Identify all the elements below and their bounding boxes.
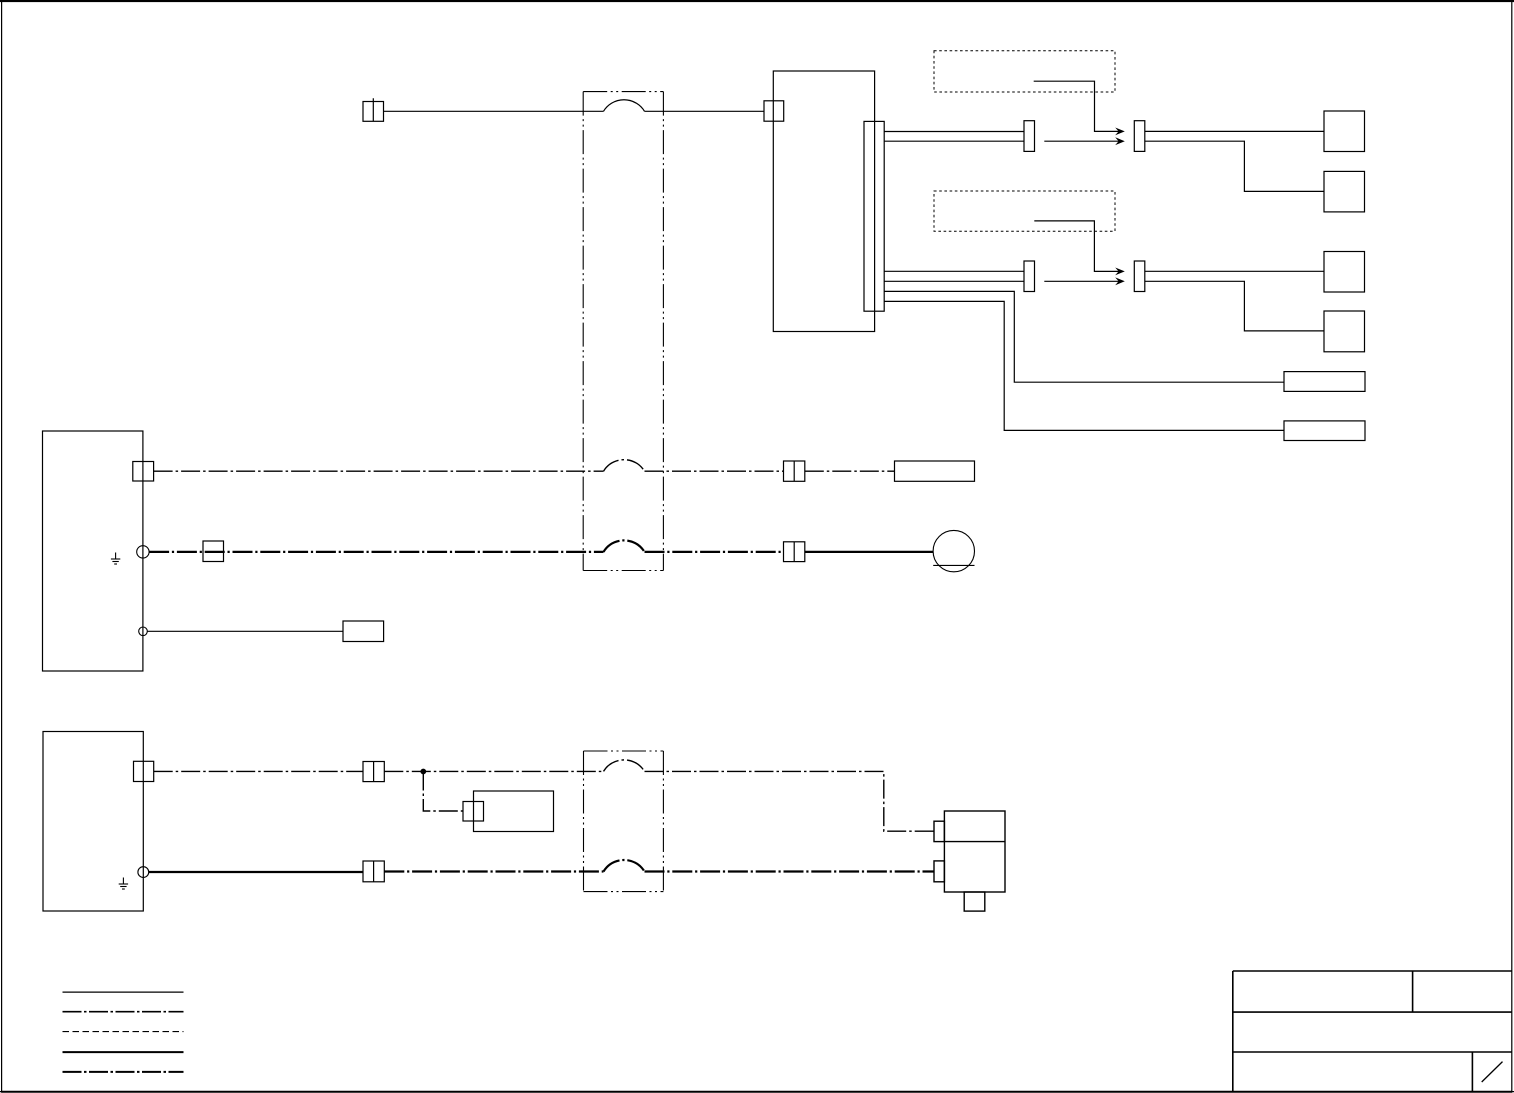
- wire: [645, 551, 784, 553]
- grommet arc: [604, 100, 645, 112]
- wire: [884, 140, 1024, 142]
- device square: [1324, 252, 1365, 293]
- wire: [1145, 281, 1324, 331]
- control unit box 1: [43, 431, 143, 671]
- wire: [884, 301, 1284, 430]
- ground: [119, 878, 128, 890]
- grommet arc: [604, 540, 645, 552]
- wire: [645, 870, 935, 872]
- wire: [149, 871, 363, 873]
- multi-pin connector strip: [864, 121, 884, 311]
- wire: [884, 270, 1024, 272]
- wire: [384, 110, 604, 112]
- connector (ignition switch lead): [363, 98, 384, 121]
- wire: [1044, 140, 1121, 142]
- harness boundary 1: [583, 92, 663, 571]
- pump motor assembly: [934, 811, 1005, 911]
- harness boundary 2: [584, 751, 664, 892]
- arrow: [1115, 137, 1125, 145]
- connector (in-line): [1024, 121, 1035, 152]
- wire: [805, 470, 895, 472]
- connector (on box edge): [134, 761, 154, 781]
- splice junction: [420, 769, 426, 775]
- wire: [884, 280, 1024, 282]
- title block: [1233, 971, 1512, 1092]
- terminal rectangle: [343, 621, 384, 642]
- connector (in-line pair): [363, 762, 384, 782]
- grommet arc: [604, 860, 645, 872]
- control unit box 2: [43, 732, 143, 912]
- arrow: [1115, 128, 1125, 136]
- arrow: [1115, 277, 1125, 285]
- connector (in-line pair): [784, 461, 805, 481]
- connector (on box edge): [133, 462, 154, 482]
- wire: [1145, 130, 1324, 132]
- wire: [154, 470, 604, 472]
- device square: [1324, 111, 1365, 152]
- wire: [645, 771, 935, 831]
- wire: [423, 772, 463, 812]
- ground: [111, 553, 120, 565]
- legend line (thick solid): [63, 1051, 184, 1053]
- wire: [884, 291, 1284, 382]
- title block diagonal: [1482, 1062, 1503, 1082]
- page border top bar: [0, 0, 1514, 2]
- wire: [1145, 270, 1324, 272]
- wire: [384, 870, 603, 872]
- connector (in-line): [1134, 261, 1145, 292]
- wire: [1034, 81, 1121, 131]
- connector (in-line pair): [784, 542, 805, 562]
- connector (in-line pair): [363, 861, 384, 882]
- wire: [805, 551, 933, 553]
- wire: [149, 551, 603, 553]
- terminal rectangle: [895, 461, 975, 481]
- wire: [1145, 141, 1324, 191]
- option box (dotted): [934, 191, 1115, 231]
- legend line (dashed): [63, 1031, 184, 1033]
- terminal rectangle: [1284, 421, 1365, 441]
- connector (in-line): [1134, 121, 1145, 152]
- arrow: [1115, 268, 1125, 276]
- connector (in-line): [1024, 261, 1035, 292]
- option box (dotted): [934, 51, 1115, 92]
- legend line (dash-dot): [63, 1011, 184, 1013]
- terminal rectangle: [1284, 372, 1365, 392]
- device square: [1324, 171, 1365, 212]
- wire: [645, 110, 765, 112]
- wire: [645, 470, 784, 472]
- legend line (thick dash-dot): [63, 1071, 184, 1073]
- relay box: [474, 791, 554, 832]
- control module: [773, 71, 874, 332]
- gauge circle: [933, 530, 974, 571]
- grommet arc: [604, 760, 645, 772]
- wire: [154, 770, 363, 772]
- connector (control module input pin): [764, 101, 784, 121]
- grommet arc: [604, 460, 645, 472]
- wire: [384, 770, 603, 772]
- connector (on relay box): [463, 802, 484, 822]
- wire: [1034, 221, 1121, 272]
- terminal circle: [137, 546, 149, 558]
- wire: [884, 131, 1024, 133]
- fuse square: [203, 541, 224, 562]
- wire: [147, 630, 343, 632]
- legend line (thin solid): [63, 991, 184, 993]
- terminal circle: [138, 867, 149, 878]
- device square: [1324, 311, 1365, 352]
- wire: [1044, 280, 1121, 282]
- terminal circle: [139, 627, 148, 636]
